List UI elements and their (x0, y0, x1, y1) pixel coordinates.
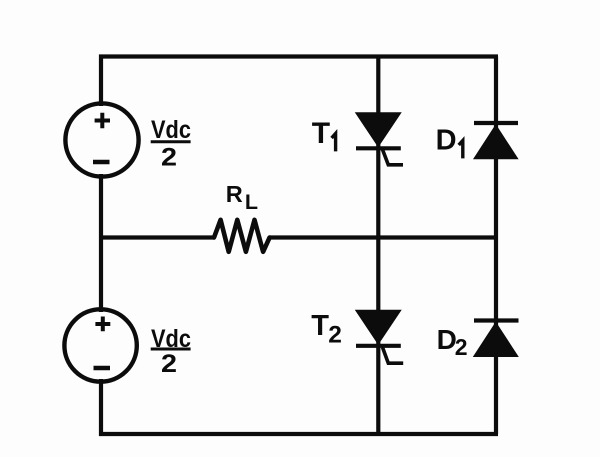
svg-text:T: T (311, 310, 329, 342)
wire: left rail middle segment (V1 to V2 through mid node) (99, 174, 103, 312)
resistor RL (214, 220, 270, 252)
svg-text:L: L (245, 190, 258, 214)
svg-text:2: 2 (161, 144, 177, 172)
wire: left rail upper segment (top bus to V1) (99, 55, 103, 107)
thyristor T1 (356, 113, 403, 165)
wire: right rail vertical (top bus to bottom bus) (494, 57, 498, 435)
label: D2 (437, 324, 468, 360)
svg-text:D: D (436, 125, 457, 157)
label: RL (226, 181, 258, 214)
thyristor T2 (356, 310, 404, 363)
wire: bottom bus from left rail to right rail (99, 432, 498, 436)
svg-text:2: 2 (455, 334, 468, 360)
label: D1 (436, 125, 463, 159)
diode D1 (474, 123, 518, 159)
voltage source V2 (64, 309, 136, 381)
wire: mid bus left segment (left rail to resistor) (101, 235, 214, 239)
svg-text:R: R (226, 181, 243, 207)
label: T2 (311, 310, 342, 348)
svg-text:2: 2 (161, 350, 177, 378)
voltage source V1 (65, 103, 138, 176)
label: V2 value Vdc/2 (151, 325, 191, 378)
svg-text:T: T (312, 117, 330, 150)
wire: mid bus right segment (resistor to right rail) (270, 235, 498, 239)
svg-text:Vdc: Vdc (151, 116, 191, 144)
wire: thyristor branch vertical (top bus to bottom bus) (376, 57, 380, 435)
label: T1 (312, 117, 336, 152)
wire: top bus from left rail to right rail (99, 54, 498, 58)
wire: left rail lower segment (V2 to bottom bus) (99, 379, 103, 436)
svg-text:2: 2 (328, 321, 342, 348)
label: V1 value Vdc/2 (151, 116, 191, 172)
diode D2 (474, 321, 519, 357)
